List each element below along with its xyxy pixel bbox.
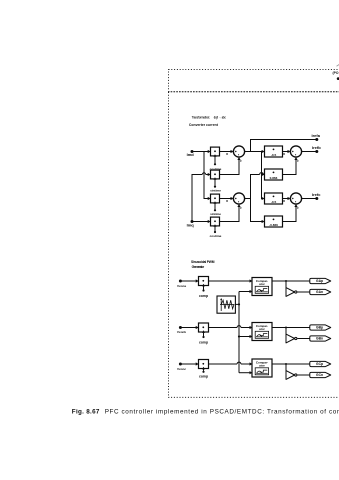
svg-text:-0.866: -0.866 (269, 223, 278, 227)
svg-text:GAp: GAp (316, 279, 323, 283)
svg-text:GCp: GCp (316, 362, 323, 366)
svg-text:dq0 → abc: dq0 → abc (214, 116, 226, 120)
svg-text:sintime: sintime (210, 212, 221, 216)
svg-text:(PO: (PO (333, 71, 339, 75)
svg-text:Sinusoidal PWM: Sinusoidal PWM (191, 260, 215, 264)
svg-text:ator: ator (259, 282, 266, 286)
svg-text:D: D (283, 199, 285, 203)
svg-text:D: D (226, 199, 228, 203)
svg-text:sintime: sintime (210, 188, 221, 192)
svg-text:Irefb: Irefb (312, 145, 321, 150)
svg-text:D: D (226, 152, 228, 156)
svg-text:costime: costime (210, 234, 222, 238)
svg-text:Vconc: Vconc (177, 367, 186, 371)
svg-text:ator: ator (259, 364, 266, 368)
svg-text:Fig. 8.67PFC controller implem: Fig. 8.67PFC controller implemented in P… (72, 409, 339, 416)
svg-text:Imd: Imd (187, 152, 195, 157)
svg-text:Imq: Imq (187, 222, 195, 227)
svg-text:Irefc: Irefc (312, 192, 321, 197)
svg-text:Vcona: Vcona (177, 284, 186, 288)
svg-text:-0.5: -0.5 (271, 153, 277, 157)
svg-text:Irefa: Irefa (312, 133, 321, 138)
svg-text:comp: comp (199, 340, 208, 344)
svg-text:GBn: GBn (316, 337, 323, 341)
svg-text:comp: comp (199, 294, 208, 298)
svg-text:GAn: GAn (316, 290, 323, 294)
svg-text:GCn: GCn (316, 373, 323, 377)
svg-text:costime: costime (210, 167, 222, 171)
svg-text:comp: comp (199, 375, 208, 379)
svg-text:Generator: Generator (192, 265, 205, 269)
svg-text:D: D (283, 152, 285, 156)
svg-text:Converter current: Converter current (189, 123, 219, 127)
svg-text:Vconb: Vconb (177, 330, 186, 334)
svg-text:Transformation:: Transformation: (192, 116, 210, 120)
svg-text:-0.5: -0.5 (271, 200, 277, 204)
svg-text:GBp: GBp (316, 326, 323, 330)
svg-text:0.866: 0.866 (270, 176, 278, 180)
svg-text:ator: ator (259, 327, 266, 331)
